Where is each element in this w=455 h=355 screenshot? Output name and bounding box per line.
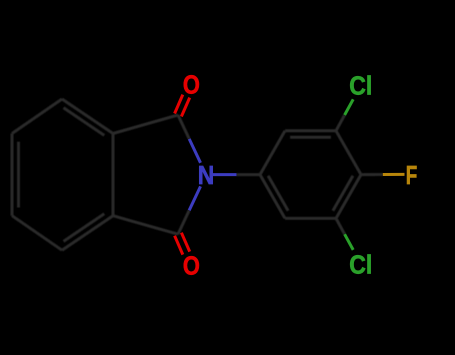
- svg-text:Cl: Cl: [349, 250, 372, 280]
- svg-text:N: N: [198, 160, 215, 190]
- svg-text:F: F: [406, 160, 418, 190]
- svg-text:O: O: [183, 251, 200, 281]
- svg-text:Cl: Cl: [349, 71, 372, 101]
- svg-text:O: O: [183, 70, 200, 100]
